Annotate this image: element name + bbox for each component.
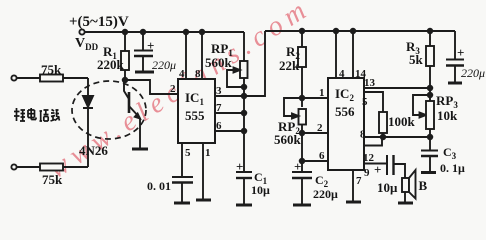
node junction R1 top — [123, 30, 128, 35]
terminal phone line bottom — [11, 164, 16, 169]
pin 1 wire — [202, 143, 204, 200]
watermark www.elecfans.com — [43, 0, 311, 185]
wire top rail 2 (555 output) — [265, 30, 455, 32]
svg-text:0. 01: 0. 01 — [147, 179, 171, 193]
pin 9 wire — [364, 163, 387, 165]
node junction pin8 — [200, 30, 205, 35]
svg-text:13: 13 — [364, 77, 376, 89]
pin 14 wire — [352, 31, 354, 78]
capacitor C2 220u — [292, 171, 312, 173]
svg-text:1: 1 — [319, 87, 325, 99]
wire — [17, 166, 40, 168]
svg-text:10k: 10k — [437, 108, 458, 123]
resistor R2 22k — [301, 31, 303, 47]
node junction C top — [141, 30, 146, 35]
op-amp U2 : IC2 556 box — [328, 78, 364, 170]
ground (under emitter) — [132, 148, 148, 151]
svg-text:100k: 100k — [388, 114, 416, 129]
ground (under 0.01) — [174, 202, 190, 205]
svg-text:B: B — [419, 178, 428, 193]
svg-text:75k: 75k — [41, 62, 62, 77]
terminal phone line top — [11, 75, 16, 80]
pin 8 wire — [201, 32, 203, 79]
pin 7 wire — [352, 170, 354, 202]
svg-text:0. 1μ: 0. 1μ — [440, 161, 465, 175]
capacitor C3 0.1u — [429, 137, 431, 150]
svg-text:+: + — [294, 159, 301, 174]
svg-text:220k: 220k — [97, 57, 125, 72]
wire top rail 1 — [85, 31, 244, 33]
svg-text:10μ: 10μ — [251, 183, 270, 197]
wire 556 pin 6 — [302, 160, 328, 162]
svg-text:75k: 75k — [42, 172, 63, 187]
svg-text:5k: 5k — [409, 52, 424, 67]
svg-text:556: 556 — [335, 104, 355, 119]
svg-text:555: 555 — [185, 108, 205, 123]
resistor 100k — [379, 112, 387, 133]
svg-text:+: + — [147, 38, 154, 53]
label 接电话线 (drawn glyphs) — [14, 108, 60, 121]
svg-text:5: 5 — [185, 147, 191, 159]
svg-text:4: 4 — [339, 68, 345, 80]
pin 8 wire — [364, 136, 430, 138]
RP1 wiper — [227, 70, 244, 87]
pin 3 wire — [215, 31, 265, 96]
ground (under 220u left) — [135, 71, 154, 74]
ground (556 pin7) — [346, 201, 361, 204]
wire 556 pin 1 — [302, 97, 328, 99]
ground (under C3) — [421, 171, 436, 174]
op-amp U1 : IC1 555 box — [178, 79, 215, 143]
ground (under 220u right) — [448, 82, 462, 85]
pin 6 wire — [215, 130, 244, 132]
pin 4 wire — [335, 31, 337, 78]
svg-text:10μ: 10μ — [377, 180, 398, 195]
svg-text:+(5~15)V: +(5~15)V — [69, 14, 129, 30]
svg-text:220μ: 220μ — [152, 58, 176, 72]
svg-text:220μ: 220μ — [313, 187, 338, 201]
node junction R1 bottom / collector — [123, 78, 128, 83]
svg-text:6: 6 — [319, 150, 325, 162]
svg-text:8: 8 — [195, 68, 201, 80]
capacitor 10u coupling — [386, 155, 388, 175]
phototransistor of 4N26 — [128, 92, 131, 113]
RP3 wiper — [413, 95, 430, 115]
potentiometer RP3 10k — [428, 93, 433, 98]
svg-text:9: 9 — [364, 167, 370, 179]
ground (under C2) — [293, 204, 311, 207]
speaker B — [402, 178, 409, 192]
svg-text:4N26: 4N26 — [79, 143, 108, 158]
pin 5 wire — [364, 92, 383, 112]
node junction pin4 — [184, 30, 189, 35]
pin 5 wire — [181, 143, 183, 177]
ground (under speaker) — [398, 202, 413, 205]
pin 4 wire — [185, 32, 187, 79]
svg-text:1: 1 — [205, 147, 211, 159]
resistor R3 5k — [429, 31, 431, 46]
svg-text:+: + — [457, 45, 464, 60]
svg-text:560k: 560k — [205, 55, 233, 70]
svg-text:220μ: 220μ — [461, 66, 485, 80]
capacitor 220u (left) — [142, 32, 144, 50]
supply label +(5~15)V — [69, 14, 129, 30]
wire — [17, 77, 40, 79]
svg-text:4: 4 — [179, 68, 185, 80]
wire 556 pin 2 — [302, 132, 328, 134]
node VDD terminal — [79, 29, 84, 34]
svg-text:8: 8 — [360, 129, 366, 141]
ground (555 pin1) — [196, 199, 211, 202]
svg-text:7: 7 — [216, 102, 222, 114]
potentiometer RP2 560k — [299, 109, 307, 125]
svg-text:2: 2 — [170, 83, 176, 95]
svg-text:7: 7 — [356, 175, 362, 187]
pin 7 wire — [215, 112, 244, 114]
pin 13 wire — [364, 87, 430, 89]
pin 12 wire — [364, 137, 382, 146]
svg-text:12: 12 — [363, 152, 375, 164]
wire — [63, 77, 88, 79]
svg-text:22k: 22k — [279, 58, 300, 73]
wire — [63, 166, 88, 168]
potentiometer RP1 560k — [205, 41, 233, 70]
capacitor 0.01 — [172, 176, 193, 178]
resistor R1 220k — [124, 32, 126, 51]
svg-text:3: 3 — [216, 85, 222, 97]
wire collector to 555 pin2 — [125, 80, 178, 94]
svg-text:+: + — [236, 159, 243, 174]
RP2 wiper — [284, 98, 302, 116]
svg-text:+: + — [374, 162, 381, 177]
svg-text:6: 6 — [216, 120, 222, 132]
capacitor C1 10u — [236, 171, 252, 173]
resistor 75k (bottom) — [40, 164, 63, 171]
LED inside optocoupler — [87, 78, 89, 96]
resistor 75k (top) — [40, 75, 63, 82]
ground (under C1) — [236, 204, 252, 207]
capacitor 220u (right) — [454, 31, 456, 59]
svg-text:560k: 560k — [274, 132, 302, 147]
optocoupler 4N26 dashed ellipse — [72, 81, 146, 139]
svg-text:2: 2 — [317, 122, 323, 134]
svg-text:5: 5 — [362, 96, 368, 108]
